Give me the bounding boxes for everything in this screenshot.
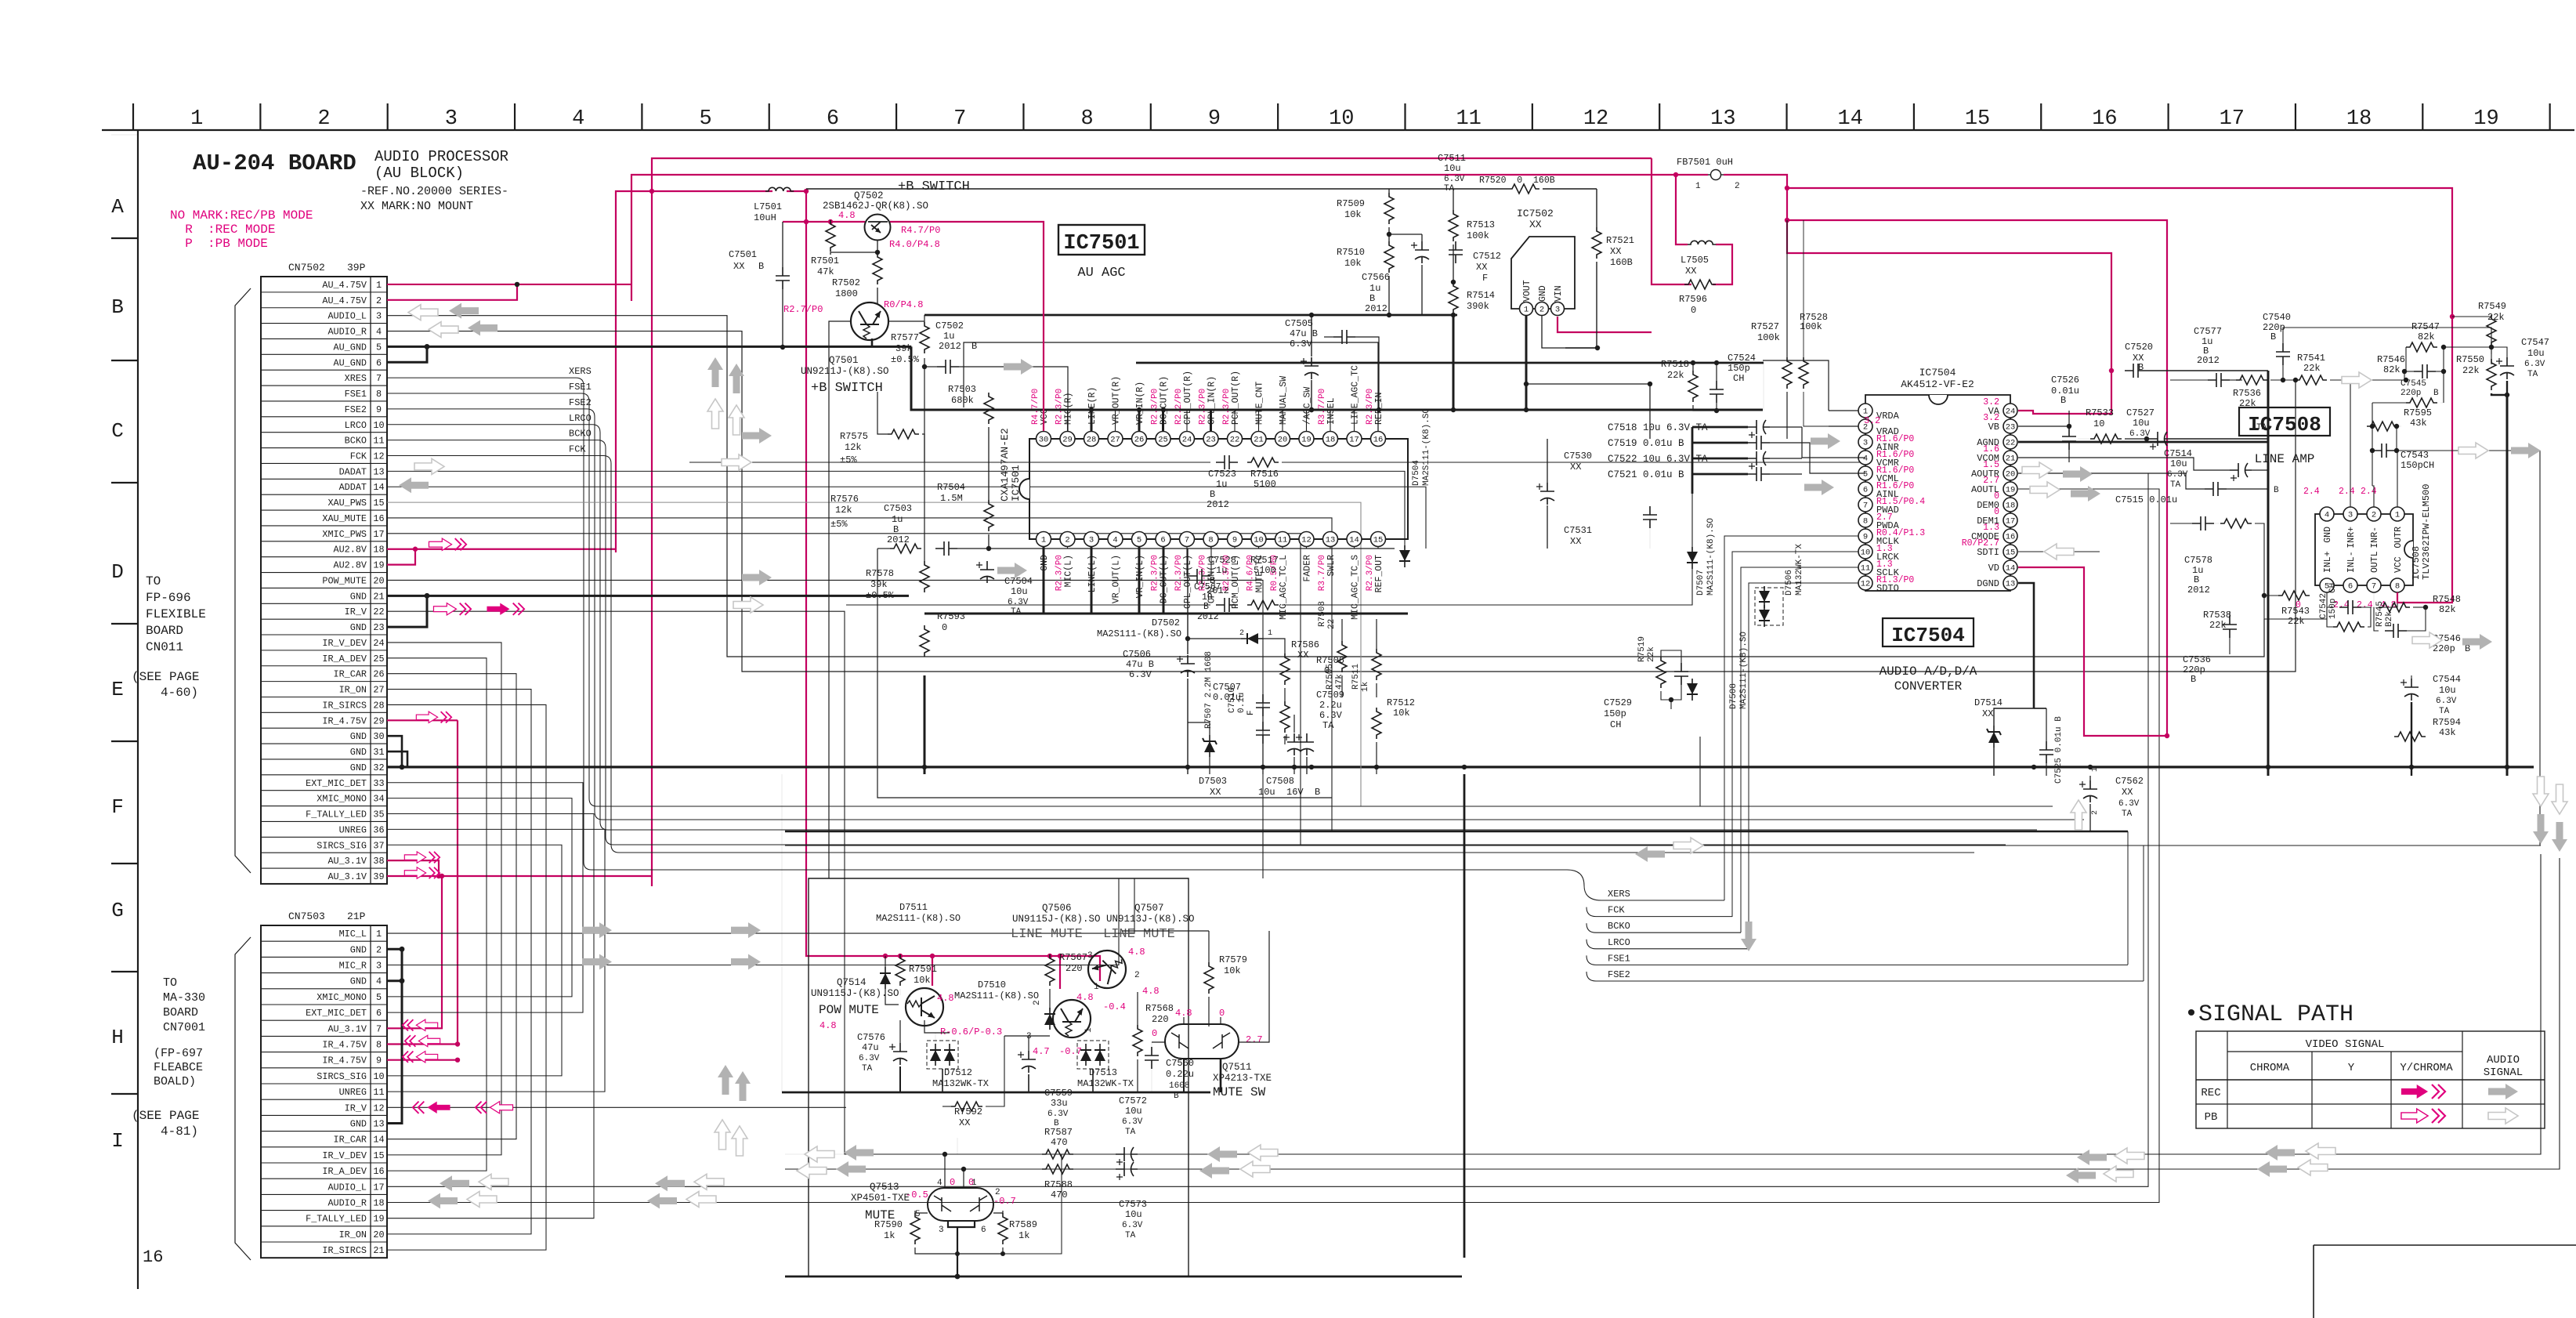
wire FSE risers	[2127, 831, 2129, 965]
svg-text:82k: 82k	[2418, 331, 2435, 342]
wire magenta +B top rail 1 (AU_3.1V)	[652, 158, 1652, 886]
svg-text:8: 8	[2395, 582, 2400, 592]
gray arrows bottom-left of signal table	[2077, 1150, 2107, 1165]
svg-text:R2.3/P0: R2.3/P0	[1222, 389, 1232, 425]
svg-text:100k: 100k	[1467, 230, 1489, 241]
svg-text:B: B	[1174, 1092, 1179, 1101]
svg-text:2: 2	[1239, 629, 1244, 638]
wire serial risers to IC7504	[1724, 536, 1858, 900]
svg-text:-0.7: -0.7	[1059, 1046, 1082, 1057]
svg-text:15: 15	[2006, 549, 2016, 558]
svg-text:IR_A_DEV: IR_A_DEV	[322, 654, 367, 664]
svg-text:6: 6	[2348, 582, 2353, 592]
svg-text:13: 13	[1710, 107, 1735, 131]
svg-text:R2.2/P0: R2.2/P0	[1174, 389, 1184, 425]
svg-text:4.8: 4.8	[838, 210, 856, 221]
svg-text:E: E	[111, 678, 124, 701]
svg-text:R7501: R7501	[811, 255, 839, 266]
svg-text:R7511: R7511	[1351, 664, 1361, 690]
svg-text:MUTE_CNT: MUTE_CNT	[1255, 382, 1265, 425]
pink arrows CN7503 pins 7/8/9 (left)	[403, 1019, 438, 1030]
pin 14 MIC_AGC_TC_S	[1347, 532, 1362, 547]
svg-text:3: 3	[1863, 439, 1868, 448]
svg-text:FLEXIBLE: FLEXIBLE	[146, 607, 206, 621]
svg-text:R7520 0 160B: R7520 0 160B	[1479, 176, 1555, 186]
svg-text:10: 10	[1254, 536, 1264, 545]
svg-text:3.2: 3.2	[1983, 413, 1999, 423]
wire magenta IC7502 VIN	[1558, 317, 1652, 332]
svg-text:19: 19	[373, 560, 384, 571]
svg-text:16: 16	[143, 1247, 163, 1267]
svg-text:R7518: R7518	[1661, 359, 1689, 370]
svg-text:36: 36	[373, 824, 384, 835]
svg-text:R7593: R7593	[937, 611, 965, 622]
svg-text:4: 4	[1113, 536, 1117, 545]
svg-text:R7591: R7591	[909, 964, 937, 975]
svg-text:3: 3	[376, 311, 382, 322]
svg-text:31: 31	[373, 747, 384, 758]
svg-text:D7510: D7510	[978, 979, 1006, 990]
svg-text:POW MUTE: POW MUTE	[819, 1003, 879, 1017]
gray arrows far right on return lines	[2265, 1145, 2295, 1160]
pin 6 DC_CUT(L)	[1156, 532, 1170, 547]
svg-text:33: 33	[373, 778, 384, 789]
pin 3 INR+	[2343, 507, 2357, 521]
svg-text:R7595: R7595	[2404, 407, 2432, 418]
svg-text:R1.6/P0: R1.6/P0	[1876, 434, 1914, 444]
pin 11 MIC_AGC_TC_L	[1275, 532, 1290, 547]
svg-text:CHROMA: CHROMA	[2250, 1062, 2290, 1074]
svg-text:10u: 10u	[2170, 458, 2187, 469]
svg-text:1u: 1u	[943, 331, 954, 342]
svg-text:47u: 47u	[862, 1042, 879, 1053]
pin 4 VR_OUT(L)	[1108, 532, 1123, 547]
svg-text:47k: 47k	[1335, 674, 1344, 690]
svg-text:B: B	[1210, 575, 1215, 586]
svg-text:R7543: R7543	[2281, 606, 2310, 617]
svg-text:R0/P2.7: R0/P2.7	[1962, 538, 1999, 549]
svg-text:LRCO: LRCO	[345, 420, 367, 431]
svg-text:2: 2	[1033, 1000, 1042, 1005]
svg-text:UNREG: UNREG	[339, 1087, 367, 1098]
svg-text:27: 27	[373, 685, 384, 696]
svg-text:B: B	[1369, 293, 1375, 304]
svg-text:-REF.NO.20000 SERIES-: -REF.NO.20000 SERIES-	[360, 185, 508, 198]
svg-text:7: 7	[2372, 582, 2376, 592]
wire Q7513 connections	[944, 1154, 946, 1188]
svg-text:R1.5/P0.4: R1.5/P0.4	[1876, 497, 1925, 507]
svg-text:220: 220	[1065, 963, 1083, 974]
svg-text:IR_V: IR_V	[345, 1103, 367, 1113]
pin 19 AOUTL	[2003, 482, 2017, 496]
svg-text:INR+: INR+	[2346, 527, 2357, 549]
svg-text:47k: 47k	[817, 266, 834, 277]
svg-text:16: 16	[2092, 107, 2117, 131]
svg-text:VIN: VIN	[1554, 285, 1564, 302]
svg-text:MIC_L: MIC_L	[339, 929, 367, 940]
svg-text:TA: TA	[1011, 607, 1022, 617]
pin 24 VA	[2003, 404, 2017, 418]
svg-text:P :PB MODE: P :PB MODE	[170, 237, 268, 251]
svg-text:37: 37	[373, 840, 384, 851]
svg-text:B: B	[2060, 395, 2066, 406]
svg-text:100k: 100k	[1757, 332, 1780, 343]
wire CN7503 signal links	[387, 878, 1134, 933]
svg-text:LRCO: LRCO	[569, 413, 592, 424]
gray arrows IC7508 out right	[2458, 443, 2488, 458]
wire thick vertical x1869	[1463, 774, 1466, 1258]
svg-text:FLEABCE: FLEABCE	[154, 1061, 203, 1074]
svg-text:1.3: 1.3	[1983, 523, 1999, 533]
svg-text:CH: CH	[1733, 373, 1744, 384]
svg-text:TO: TO	[146, 574, 161, 588]
svg-text:IC7501: IC7501	[1010, 465, 1022, 501]
svg-text:INL-: INL-	[2346, 551, 2357, 573]
svg-text:DGND: DGND	[1977, 578, 1999, 589]
svg-text:12: 12	[373, 1103, 384, 1113]
svg-text:C7544: C7544	[2433, 674, 2461, 685]
svg-text:R1.6/P0: R1.6/P0	[1876, 450, 1914, 460]
pin 6 INL-	[2343, 578, 2357, 592]
svg-text:39P: 39P	[347, 262, 366, 273]
svg-text:AU2.8V: AU2.8V	[334, 560, 367, 571]
pin 24 CPL_OUT(R)	[1180, 432, 1195, 447]
svg-text:VR_OUT(L): VR_OUT(L)	[1112, 555, 1122, 603]
svg-text:EXT_MIC_DET: EXT_MIC_DET	[306, 778, 367, 789]
wire thick main GND bus y990 (pin32)	[387, 766, 2534, 768]
gray arrows up near mute left	[718, 1065, 733, 1095]
svg-text:6: 6	[1160, 536, 1165, 545]
pin 17 LINE_AGC_TC	[1347, 432, 1362, 447]
svg-text:10: 10	[2093, 418, 2104, 429]
svg-text:OUTL: OUTL	[2370, 551, 2380, 573]
gray arrows down bottom right	[2533, 777, 2549, 806]
svg-text:8: 8	[376, 1040, 382, 1051]
svg-text:6: 6	[1863, 486, 1868, 495]
svg-text:IC7508: IC7508	[2248, 413, 2321, 436]
svg-text:GND: GND	[350, 591, 367, 602]
svg-text:23: 23	[2006, 423, 2016, 433]
svg-text:B2k: B2k	[2385, 611, 2394, 627]
svg-text:XX: XX	[1685, 266, 1696, 277]
svg-text:14: 14	[373, 1135, 384, 1146]
svg-text:17: 17	[2220, 107, 2245, 131]
svg-text:11: 11	[373, 436, 384, 447]
svg-text:MA2S111-(K8).SO: MA2S111-(K8).SO	[876, 913, 961, 924]
svg-text:B: B	[758, 261, 764, 272]
svg-text:(AU BLOCK): (AU BLOCK)	[374, 165, 464, 182]
svg-text:35: 35	[373, 809, 384, 820]
pin 5 INL+	[2320, 578, 2334, 592]
svg-text:22: 22	[2006, 439, 2016, 448]
svg-text:•SIGNAL PATH: •SIGNAL PATH	[2184, 1001, 2353, 1028]
svg-text:14: 14	[1349, 536, 1359, 545]
svg-text:7: 7	[953, 107, 966, 131]
svg-text:6.3V: 6.3V	[859, 1054, 880, 1063]
svg-text:VB: VB	[1988, 422, 1999, 433]
svg-text:18: 18	[2006, 501, 2016, 511]
svg-text:SIGNAL: SIGNAL	[2484, 1066, 2523, 1079]
svg-text:C7526: C7526	[2051, 375, 2079, 386]
svg-text:4.8: 4.8	[1175, 1008, 1192, 1019]
svg-text:FCK: FCK	[1608, 905, 1625, 916]
svg-text:CH: CH	[1610, 719, 1621, 730]
svg-text:22: 22	[1327, 619, 1337, 629]
svg-text:B: B	[1210, 489, 1215, 500]
svg-text:2012: 2012	[2187, 585, 2210, 596]
svg-text:7: 7	[1863, 501, 1868, 511]
svg-text:1u: 1u	[1369, 283, 1380, 294]
svg-text:3.2: 3.2	[1864, 416, 1880, 426]
svg-text:17: 17	[1349, 436, 1359, 445]
svg-text:6.3V: 6.3V	[1129, 669, 1152, 680]
pin 16 REF_IN	[1371, 432, 1386, 447]
svg-text:R7567: R7567	[1059, 952, 1087, 963]
svg-text:2.4: 2.4	[2303, 487, 2320, 497]
svg-text:IR_A_DEV: IR_A_DEV	[322, 1166, 367, 1177]
svg-text:R7578: R7578	[866, 568, 894, 579]
svg-text:REC: REC	[2201, 1087, 2220, 1099]
svg-text:F: F	[1246, 710, 1256, 715]
svg-text:R7519: R7519	[1637, 636, 1647, 662]
svg-text:UN9211J-(K8).SO: UN9211J-(K8).SO	[801, 366, 889, 377]
svg-text:Y/CHROMA: Y/CHROMA	[2400, 1062, 2453, 1074]
wire magenta CN7503 pins8-9 IR_4.75V	[387, 720, 458, 1044]
wire IC7502 VOUT down	[1525, 316, 1528, 410]
svg-text:BOARD: BOARD	[163, 1006, 198, 1019]
svg-text:6: 6	[376, 1008, 382, 1019]
svg-text:R7533: R7533	[2086, 407, 2114, 418]
svg-text:1: 1	[1863, 407, 1868, 417]
wire IR_V line arrows	[785, 1153, 2541, 1155]
resistor R7521	[1592, 227, 1601, 259]
wire OUTR line y575 to right	[2397, 451, 2540, 845]
svg-text:Q7506: Q7506	[1042, 903, 1072, 914]
svg-text:IC7501: IC7501	[1063, 232, 1139, 255]
svg-text:R7502: R7502	[832, 277, 860, 288]
svg-text:R0/P4.8: R0/P4.8	[884, 299, 923, 310]
pin 4 VCMR	[1858, 451, 1872, 465]
svg-text:R2.3/P0: R2.3/P0	[1055, 555, 1065, 591]
svg-text:R7505: R7505	[1326, 664, 1335, 690]
pin 2 INR-	[2367, 507, 2381, 521]
pin 26 VR_IN(R)	[1132, 432, 1147, 447]
wire magenta L7505 loop	[1713, 244, 1732, 284]
wire magenta +B switched rail y283	[783, 221, 865, 223]
svg-text:Q7502: Q7502	[854, 190, 884, 201]
svg-text:220p: 220p	[2433, 643, 2455, 654]
svg-text:30: 30	[1039, 436, 1049, 445]
svg-text:4-81): 4-81)	[161, 1124, 198, 1139]
svg-text:220p: 220p	[2401, 389, 2421, 398]
svg-text:BCKO: BCKO	[569, 429, 592, 440]
svg-text:6.3V: 6.3V	[1047, 1110, 1069, 1119]
svg-text:R2.3/P0: R2.3/P0	[1199, 389, 1208, 425]
svg-text:PB: PB	[2205, 1111, 2218, 1124]
wire IC7501 top pin thin stubs	[1067, 410, 1069, 431]
pin 5 VR_IN(L)	[1132, 532, 1147, 547]
svg-text:MANUAL_SW: MANUAL_SW	[1279, 376, 1289, 425]
svg-text:D7507: D7507	[1696, 570, 1706, 596]
pin 8 PWDA	[1858, 513, 1872, 527]
svg-text:B: B	[2270, 331, 2276, 342]
op-amp IC7501 AU AGC block	[1029, 439, 1408, 539]
wire magenta rail2 branch VD	[1787, 220, 2167, 736]
svg-text:LINE MUTE: LINE MUTE	[1011, 927, 1083, 942]
svg-text:IR_V_DEV: IR_V_DEV	[322, 638, 367, 649]
svg-text:0: 0	[942, 622, 947, 633]
svg-text:10: 10	[1861, 549, 1871, 558]
svg-text:B: B	[893, 524, 899, 535]
pin 15 REF_OUT	[1371, 532, 1386, 547]
svg-text:10u: 10u	[2527, 348, 2545, 359]
svg-text:47u B: 47u B	[1126, 659, 1154, 670]
svg-text:H: H	[111, 1026, 124, 1049]
svg-text:BCKO: BCKO	[1608, 921, 1630, 932]
svg-text:20: 20	[373, 1229, 384, 1240]
svg-text:R7514: R7514	[1467, 290, 1495, 301]
svg-text:19: 19	[373, 1214, 384, 1225]
svg-text:22: 22	[1230, 436, 1240, 445]
pin 23 VB	[2003, 419, 2017, 433]
pin 11 SCLK	[1858, 560, 1872, 574]
svg-text:AU_3.1V: AU_3.1V	[327, 871, 367, 882]
svg-text:15: 15	[1965, 107, 1990, 131]
svg-text:6.3V: 6.3V	[2118, 799, 2140, 809]
svg-text:1k: 1k	[1361, 681, 1370, 692]
pin 1 GND	[1037, 532, 1051, 547]
pin 12 SDTO	[1858, 576, 1872, 590]
svg-text:FCK: FCK	[569, 444, 586, 455]
svg-text:16: 16	[373, 513, 384, 524]
svg-text:B: B	[1203, 602, 1209, 612]
wire magenta CN7502 pins18-19 (AU2.8V)	[387, 549, 616, 550]
wire EXT_MIC_DET/XMIC_MONO/F_TALLY_LED/UNREG/SIRCS_SIG pins33-37 to CN7503	[387, 783, 583, 1012]
gray arrow SDTI	[2044, 544, 2074, 559]
svg-text:3: 3	[939, 1226, 944, 1235]
svg-text:4: 4	[572, 107, 584, 131]
svg-text:R7592: R7592	[954, 1106, 982, 1117]
svg-text:38: 38	[373, 856, 384, 867]
svg-text:C7525 0.01u B: C7525 0.01u B	[2054, 716, 2064, 784]
svg-text:GND: GND	[350, 747, 367, 758]
svg-text:AUDIO_L: AUDIO_L	[327, 311, 367, 322]
svg-text:MIC_AGC_TC_S: MIC_AGC_TC_S	[1351, 555, 1361, 620]
wire Q7511 connections	[1183, 1017, 1185, 1024]
svg-text:22k: 22k	[2239, 398, 2256, 409]
svg-text:B: B	[2274, 486, 2279, 495]
svg-text:IR_SIRCS: IR_SIRCS	[322, 1245, 367, 1256]
svg-text:15: 15	[373, 1150, 384, 1161]
svg-text:R7517: R7517	[1250, 555, 1279, 566]
IC7501 boxed label	[1058, 225, 1145, 255]
svg-text:15: 15	[373, 498, 384, 509]
svg-text:XAU_MUTE: XAU_MUTE	[322, 513, 367, 524]
svg-text:C7509: C7509	[1316, 690, 1344, 701]
svg-text:C7504: C7504	[1004, 576, 1033, 587]
wire cap group to IC7504	[1802, 427, 1865, 458]
svg-text:5: 5	[376, 342, 382, 353]
svg-text:4.7: 4.7	[1033, 1046, 1050, 1057]
svg-text:Q7511: Q7511	[1222, 1062, 1252, 1073]
svg-text:3: 3	[1555, 306, 1560, 315]
svg-text:14: 14	[1838, 107, 1863, 131]
svg-text:AU AGC: AU AGC	[1077, 266, 1125, 281]
pin 7 OUTL	[2367, 578, 2381, 592]
wire VD magenta drop	[2084, 596, 2167, 736]
svg-text:XX: XX	[1982, 708, 1993, 719]
svg-text:1u: 1u	[1216, 565, 1227, 576]
resistor R7509 10k	[1388, 189, 1390, 193]
svg-text:25: 25	[373, 654, 384, 664]
svg-text:32: 32	[373, 762, 384, 773]
svg-text:F: F	[111, 795, 124, 819]
svg-text:14: 14	[2006, 564, 2016, 574]
svg-text:10u: 10u	[1444, 163, 1461, 174]
pin 9 MCLK	[1858, 529, 1872, 543]
svg-text:R7504: R7504	[937, 482, 965, 493]
svg-text:R4.7/P0: R4.7/P0	[1031, 389, 1040, 425]
svg-text:10u: 10u	[2133, 418, 2150, 429]
wire Q7501 base/collector/emitter	[829, 321, 851, 878]
svg-text:1: 1	[1695, 182, 1701, 191]
svg-text:R7586: R7586	[1291, 639, 1319, 650]
svg-text:2.7: 2.7	[1876, 512, 1893, 523]
svg-text:R7513: R7513	[1467, 219, 1495, 230]
svg-text:6.3V: 6.3V	[1122, 1117, 1143, 1127]
svg-text:R7541: R7541	[2297, 353, 2325, 364]
svg-text:R-0.6/P-0.3: R-0.6/P-0.3	[940, 1027, 1002, 1037]
svg-text:F_TALLY_LED: F_TALLY_LED	[306, 1214, 367, 1225]
wire AUDIO_R from CN7502 pin4	[387, 331, 2296, 672]
signal arrows DADAT/ADDAT	[414, 458, 444, 474]
svg-text:150pCH: 150pCH	[2401, 460, 2434, 471]
svg-text:1u: 1u	[892, 514, 903, 525]
pink arrow IR_4.75V pin29	[416, 712, 451, 722]
border frame left ruler	[137, 130, 139, 1289]
svg-text:C7515 0.01u: C7515 0.01u	[2115, 494, 2177, 505]
CN7503 bracket	[235, 937, 251, 1260]
wire C7506 drop	[1187, 549, 1189, 654]
svg-text:150p CH: 150p CH	[2328, 583, 2338, 619]
svg-text:R7503: R7503	[948, 384, 976, 395]
svg-text:13: 13	[1326, 536, 1336, 545]
svg-text:2: 2	[2091, 810, 2100, 815]
capacitor C7503 (on loop line)	[935, 541, 957, 556]
svg-text:12k: 12k	[835, 505, 852, 516]
svg-text:C7566: C7566	[1362, 272, 1390, 283]
svg-text:-0.7: -0.7	[993, 1196, 1016, 1207]
svg-text:INSEL: INSEL	[1326, 397, 1337, 425]
svg-text:AUDIO: AUDIO	[2487, 1054, 2520, 1066]
svg-text:39k: 39k	[870, 579, 888, 590]
svg-text:TA: TA	[1322, 720, 1334, 731]
svg-text:470: 470	[1051, 1189, 1068, 1200]
svg-text:AU_3.1V: AU_3.1V	[327, 1023, 367, 1034]
svg-text:XX: XX	[1210, 787, 1221, 798]
svg-text:17: 17	[373, 1182, 384, 1193]
op-amp IC7504 ADC/DAC block	[1865, 395, 2010, 591]
svg-text:43k: 43k	[2410, 418, 2427, 429]
svg-text:VR_OUT(R): VR_OUT(R)	[1112, 376, 1122, 425]
wire magenta +B rail 2 (AU_4.75V)	[631, 175, 1708, 301]
svg-text:6.3V: 6.3V	[1008, 598, 1029, 607]
svg-text:1800: 1800	[835, 288, 858, 299]
svg-text:I: I	[111, 1129, 124, 1153]
svg-text:UNREG: UNREG	[339, 824, 367, 835]
wire IR_V pin22 long line	[387, 611, 2541, 1154]
svg-text:MIC(R): MIC(R)	[1064, 393, 1074, 425]
